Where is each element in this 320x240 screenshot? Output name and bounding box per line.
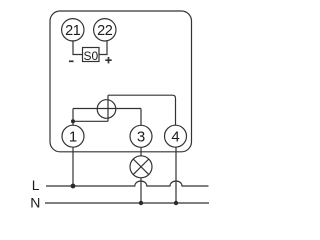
svg-text:21: 21 <box>65 23 81 39</box>
wire 21 to S0 <box>73 40 83 54</box>
wire 22 to S0 <box>99 40 107 54</box>
terminal 4 <box>165 125 187 147</box>
wire terminal4 to N <box>175 147 177 203</box>
N line <box>45 202 209 204</box>
svg-text:22: 22 <box>97 23 113 39</box>
wire terminal3 to lamp <box>140 147 142 156</box>
wire coil top to terminal 4 <box>108 95 176 125</box>
svg-text:L: L <box>32 177 40 193</box>
svg-text:S0: S0 <box>83 49 98 63</box>
lamp <box>130 156 152 178</box>
wire terminal3 riser <box>140 109 142 126</box>
polarity minus <box>69 60 74 62</box>
wire coil vertical <box>107 95 109 121</box>
terminal 3 <box>130 125 152 147</box>
wire coil bottom to node <box>73 120 108 122</box>
svg-text:1: 1 <box>69 129 77 146</box>
wire terminal1 to L <box>72 147 74 186</box>
svg-text:N: N <box>30 194 40 210</box>
wire lamp to N <box>140 178 142 203</box>
S0 box <box>83 48 100 64</box>
junction dot N terminal4 <box>174 201 178 205</box>
polarity plus <box>105 57 111 63</box>
wire terminal1 riser <box>72 109 74 126</box>
svg-text:3: 3 <box>137 129 145 146</box>
device outline <box>50 11 192 152</box>
terminal 21 <box>62 19 84 41</box>
terminal 22 <box>94 19 116 41</box>
svg-text:4: 4 <box>171 129 179 146</box>
wire 1 to 3 horizontal <box>73 108 141 110</box>
relay coil <box>97 100 116 119</box>
junction dot N lamp <box>139 201 143 205</box>
terminal 1 <box>62 125 84 147</box>
node junction on riser 1 <box>71 119 75 123</box>
L line with crossover hops <box>46 181 209 186</box>
junction dot L terminal1 <box>71 184 76 189</box>
